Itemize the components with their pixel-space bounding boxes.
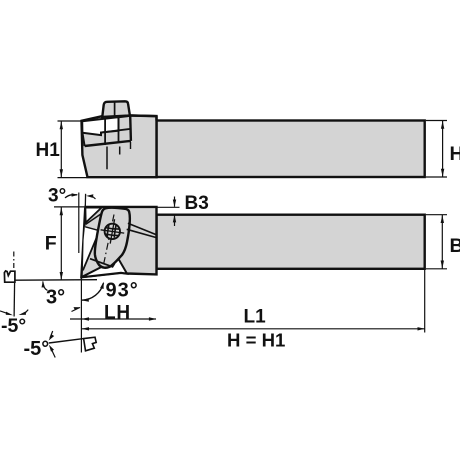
clamp nose line on insert xyxy=(90,259,115,267)
bottom rake insert symbol xyxy=(84,337,97,351)
93deg arrow top xyxy=(100,282,104,289)
H1 arrow down xyxy=(60,169,63,177)
B3 arrow down xyxy=(173,197,176,208)
LH dimension line xyxy=(70,318,156,320)
B arrow down xyxy=(441,261,444,269)
H1 extension line bottom xyxy=(58,177,88,179)
svg-text:3°: 3° xyxy=(46,286,65,308)
H1 arrow up xyxy=(60,121,63,129)
svg-text:H = H1: H = H1 xyxy=(227,329,285,350)
insert (side view) xyxy=(81,258,127,277)
bottom rake line xyxy=(49,339,84,343)
screw axis (dash-dot) xyxy=(102,215,114,272)
H1 dimension line xyxy=(60,121,62,178)
B extension line top xyxy=(426,214,447,216)
screw cross vertical xyxy=(110,219,114,243)
F extension line top xyxy=(54,206,84,208)
svg-text:L1: L1 xyxy=(244,307,267,328)
left rake arrow right xyxy=(19,311,26,315)
left rake symbol dashdot line xyxy=(13,252,15,271)
screw grid horizontal 2 xyxy=(105,234,119,236)
head body (side view) xyxy=(81,207,156,277)
clamp block vertical line 1 xyxy=(104,119,106,145)
clamp block vertical line 2 xyxy=(118,117,120,142)
bottom rake arrow upper xyxy=(49,331,55,341)
H extension line bottom xyxy=(426,176,447,178)
svg-text:H: H xyxy=(450,143,460,165)
L1 arrow left xyxy=(82,327,89,330)
B3 extension line xyxy=(157,206,180,208)
hidden line below block 2 xyxy=(119,147,121,155)
svg-text:B: B xyxy=(450,235,460,257)
edge extension arrow xyxy=(86,194,93,198)
pocket wedge white triangle xyxy=(85,208,101,223)
screw grid vertical 1 xyxy=(107,225,109,237)
svg-text:93°: 93° xyxy=(106,280,139,302)
93deg arc xyxy=(82,283,104,300)
front face white wedge xyxy=(83,227,100,271)
B arrow up xyxy=(441,215,444,223)
H extension line top xyxy=(426,120,447,122)
H arrow up xyxy=(441,121,444,129)
pocket line lower xyxy=(127,229,157,237)
L1 right extension line xyxy=(424,270,426,333)
svg-text:H1: H1 xyxy=(36,140,61,161)
clamp (side view, egg shape) xyxy=(95,208,130,268)
shank (top view) xyxy=(157,121,425,178)
B dimension line xyxy=(441,215,443,269)
shank (side view) xyxy=(157,215,425,269)
left rake symbol axis xyxy=(13,283,16,317)
B3 arrow up xyxy=(173,215,176,226)
left rake arrow leader left xyxy=(0,311,6,313)
LH arrow right xyxy=(149,317,156,320)
3deg bottom arrow xyxy=(42,281,45,288)
B extension line bottom xyxy=(426,268,447,270)
edge extension above corner xyxy=(84,194,86,207)
head thin top edge (top view) xyxy=(82,116,103,121)
left rake arrow leader right xyxy=(25,310,28,313)
clamp block bottom edge xyxy=(85,141,131,146)
clamp block left lower edge xyxy=(82,133,84,146)
hidden line below block 3 xyxy=(130,142,132,149)
H arrow down xyxy=(441,169,444,177)
3deg bottom arc xyxy=(43,282,48,291)
pocket line upper xyxy=(128,223,156,235)
svg-text:B3: B3 xyxy=(185,193,209,214)
L1 arrow right xyxy=(418,327,425,330)
knob split line xyxy=(114,102,116,117)
svg-text:LH: LH xyxy=(104,303,131,324)
3deg bottom leader2 arrow xyxy=(74,307,81,310)
rake ref line (horizontal, y=280) xyxy=(16,279,98,282)
F arrow up xyxy=(60,207,63,215)
front face diagonal line xyxy=(83,231,100,271)
H1 extension line top xyxy=(58,120,84,122)
left rake insert symbol xyxy=(4,271,15,282)
svg-text:-5°: -5° xyxy=(24,338,50,360)
screw grid horizontal 1 xyxy=(106,228,120,230)
clamp block right edge xyxy=(129,116,132,141)
3deg top leader arrow xyxy=(72,193,79,196)
step head/shank (top view) xyxy=(155,116,157,120)
93deg arrow bottom xyxy=(81,298,89,301)
svg-text:3°: 3° xyxy=(48,186,66,207)
bottom rake arrow lower xyxy=(49,345,55,358)
3deg bottom leader2 xyxy=(72,308,80,312)
head top edge right of knob xyxy=(130,114,157,117)
clamp block mid line right xyxy=(101,129,131,133)
clamp block white part (top view) xyxy=(82,117,118,135)
svg-text:-5°: -5° xyxy=(1,315,26,337)
F dimension line xyxy=(60,207,62,280)
clamp block top edge right (top view) xyxy=(119,116,131,118)
vertical extension below tip xyxy=(80,277,82,353)
screw grid vertical 2 xyxy=(114,225,116,238)
front face wedge top line xyxy=(85,227,99,231)
clamp knob (top view) xyxy=(102,101,130,117)
3deg top leader xyxy=(65,195,77,198)
F arrow down xyxy=(60,272,63,280)
svg-text:F: F xyxy=(45,233,57,255)
H dimension line xyxy=(442,121,444,178)
screw head circle xyxy=(105,224,120,239)
L1 dimension line xyxy=(81,328,424,330)
pocket step line xyxy=(86,214,102,225)
left rake arrow left xyxy=(6,312,13,316)
LH arrow left xyxy=(82,317,89,320)
vertical ref line (3deg) xyxy=(78,193,80,254)
hidden line below block 1 xyxy=(106,147,108,170)
screw cross horizontal xyxy=(101,230,125,233)
head body (top view) xyxy=(82,115,157,177)
